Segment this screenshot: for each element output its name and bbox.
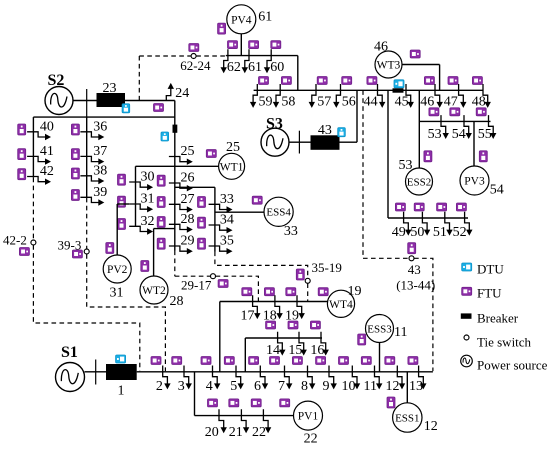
FTU at ESS1	[387, 397, 395, 408]
load arrow node 41	[27, 156, 51, 164]
wire feeder 40-42	[32, 117, 34, 178]
wire bus 60-62 down to main bus	[297, 56, 299, 91]
load arrow node 59	[250, 84, 257, 108]
wind turbine WT4	[327, 290, 354, 317]
load arrow node 20	[219, 409, 227, 433]
wire ESS3 to bus	[379, 343, 381, 372]
svg-text:42-2: 42-2	[3, 233, 27, 248]
wire feeder 36-39	[86, 117, 88, 198]
FTU at node 4	[201, 357, 211, 365]
FTU at node 46	[424, 77, 434, 85]
breaker 1	[106, 364, 137, 380]
load arrow node 54	[464, 115, 472, 139]
svg-text:52: 52	[453, 225, 467, 240]
wire S3 to breaker 43	[289, 141, 311, 143]
load arrow node 51	[445, 212, 453, 236]
svg-text:31: 31	[141, 192, 155, 207]
svg-text:8: 8	[301, 379, 308, 394]
svg-text:11: 11	[394, 325, 407, 340]
load arrow node 28	[169, 224, 193, 232]
bus 20-22	[195, 415, 294, 417]
load arrow node 39	[80, 197, 104, 205]
svg-text:40: 40	[40, 119, 54, 134]
wire node 25 to WT1	[175, 165, 218, 167]
FTU at node 47	[448, 77, 458, 85]
bus 17-19	[220, 301, 328, 303]
wire S3 riser to main bus	[356, 90, 358, 142]
FTU at node 17	[242, 288, 252, 296]
FTU at WT2	[141, 261, 149, 272]
FTU at node 3	[172, 357, 182, 365]
svg-text:WT4: WT4	[329, 299, 353, 311]
FTU at node 29	[157, 238, 165, 249]
svg-text:50: 50	[410, 225, 424, 240]
power source S2	[45, 87, 73, 115]
wire node 33 to ESS4	[215, 211, 264, 213]
svg-text:13: 13	[409, 379, 423, 394]
wire branch to 33-35 column	[175, 186, 215, 188]
wire PV3 riser	[473, 121, 475, 166]
DTU at node 45	[394, 80, 404, 88]
tie line 13-44 horizontal	[363, 257, 409, 259]
wire WT3 to corner	[402, 64, 440, 66]
tie switch 42-2	[31, 240, 36, 245]
FTU at node 56	[342, 77, 352, 85]
svg-text:45: 45	[395, 95, 409, 110]
svg-text:62-24: 62-24	[180, 58, 211, 73]
load arrow node 40	[27, 132, 51, 140]
svg-text:FTU: FTU	[477, 286, 502, 301]
FTU at node 48	[472, 77, 482, 85]
FTU at node 22	[251, 399, 261, 407]
svg-text:(13-44): (13-44)	[396, 278, 435, 293]
FTU at node 41	[18, 149, 26, 160]
wire S1 busbar tick	[95, 360, 97, 385]
tie line 42-2 upper	[32, 178, 34, 240]
wire WT2 riser	[153, 229, 155, 276]
FTU at node 55	[476, 108, 486, 116]
wire column 33-35	[214, 187, 216, 251]
main bottom bus	[137, 371, 433, 373]
tie line 42-2 lower	[33, 245, 139, 371]
svg-text:51: 51	[433, 225, 447, 240]
load arrow node 12	[397, 366, 405, 390]
FTU at node 39	[71, 190, 79, 201]
DTU at breaker 23	[122, 104, 130, 113]
load arrow node 61	[242, 49, 249, 73]
svg-text:1: 1	[118, 384, 125, 399]
svg-text:54: 54	[452, 127, 466, 142]
svg-text:19: 19	[348, 284, 362, 299]
svg-text:36: 36	[93, 119, 107, 134]
load arrow node 17	[253, 295, 261, 319]
FTU at node 53	[429, 108, 439, 116]
wind turbine WT2	[140, 276, 168, 304]
svg-text:S1: S1	[61, 344, 78, 361]
svg-text:34: 34	[220, 213, 234, 228]
FTU at node 61	[249, 41, 259, 49]
svg-text:41: 41	[40, 144, 54, 159]
load arrow node 16	[321, 332, 329, 356]
svg-text:33: 33	[220, 192, 234, 207]
FTU at node 8	[292, 357, 302, 365]
svg-text:53: 53	[428, 127, 442, 142]
load arrow node 60	[264, 49, 271, 73]
svg-text:15: 15	[288, 343, 302, 358]
svg-text:10: 10	[342, 379, 356, 394]
FTU at PV3	[479, 151, 487, 162]
svg-text:35-19: 35-19	[312, 260, 342, 275]
load arrow node 44	[378, 84, 386, 108]
load arrow node 22	[263, 409, 271, 433]
FTU at node 38	[71, 168, 79, 179]
svg-text:3: 3	[178, 379, 185, 394]
FTU at node 26	[157, 175, 165, 186]
svg-text:WT2: WT2	[142, 285, 166, 297]
FTU at tie 13-44	[408, 243, 416, 254]
FTU at node 44	[367, 77, 377, 85]
load arrow node 2	[163, 366, 171, 390]
bus 53-55	[419, 120, 490, 122]
wire branch to 30-32 column	[136, 165, 176, 167]
svg-text:26: 26	[181, 171, 195, 186]
svg-text:Power source: Power source	[477, 358, 548, 373]
svg-text:56: 56	[342, 95, 356, 110]
FTU at PV1 branch	[280, 399, 290, 407]
svg-text:WT1: WT1	[220, 161, 244, 173]
FTU at node 15	[288, 321, 298, 329]
FTU at node 16	[310, 321, 320, 329]
load arrow node 21	[241, 409, 249, 433]
load arrow node 24	[166, 83, 174, 101]
FTU at ESS3	[358, 334, 366, 345]
energy storage ESS2	[406, 168, 433, 195]
svg-text:PV4: PV4	[231, 14, 252, 26]
FTU at node 50	[414, 203, 424, 211]
load arrow node 36	[80, 132, 104, 140]
legend power source icon	[461, 355, 473, 367]
load arrow node 11	[375, 366, 383, 390]
load arrow node 26	[169, 183, 193, 191]
svg-text:57: 57	[317, 95, 331, 110]
load arrow node 56	[333, 84, 340, 108]
wire column 30-32	[135, 166, 137, 226]
FTU at node 14	[266, 321, 276, 329]
tie line 29-17 horizontal left	[175, 275, 211, 277]
svg-text:33: 33	[284, 224, 298, 239]
tie line 62-24 vertical	[138, 56, 140, 101]
wire riser to bus 17-19	[219, 302, 221, 372]
power source S3	[261, 128, 289, 156]
FTU at node 59	[259, 77, 269, 85]
wire riser to bus 14-16	[244, 338, 246, 372]
svg-text:43: 43	[318, 123, 332, 138]
FTU at tie 62-24	[189, 44, 199, 52]
svg-text:Breaker: Breaker	[477, 311, 519, 326]
FTU at node 57	[317, 77, 327, 85]
tie line 39-3 lower	[87, 254, 166, 371]
load arrow node 27	[169, 204, 193, 212]
svg-text:38: 38	[93, 163, 107, 178]
load arrow node 19	[297, 295, 305, 319]
load arrow node 33	[209, 204, 233, 212]
load arrow node 47	[459, 84, 467, 108]
load arrow node 35	[209, 246, 233, 254]
FTU at WT3 branch	[410, 50, 420, 58]
FTU at node 18	[264, 288, 274, 296]
svg-text:37: 37	[93, 144, 107, 159]
breaker 23	[97, 93, 126, 107]
load arrow node 45	[406, 84, 414, 108]
svg-text:2: 2	[156, 379, 163, 394]
bus 49-52	[388, 217, 468, 219]
load arrow node 62	[221, 49, 228, 73]
wire left feeder header	[33, 116, 174, 118]
wind turbine WT1	[219, 153, 245, 179]
power source S1	[56, 363, 85, 392]
load arrow node 30	[129, 182, 153, 190]
photovoltaic PV3	[460, 166, 489, 195]
load arrow node 14	[278, 332, 286, 356]
bus 14-16	[245, 337, 322, 339]
wire S2 to breaker 23	[73, 100, 97, 102]
svg-text:24: 24	[175, 86, 189, 101]
FTU at node 21	[229, 399, 239, 407]
wind turbine WT3	[375, 51, 402, 78]
svg-text:29: 29	[181, 234, 195, 249]
svg-text:ESS3: ESS3	[367, 323, 392, 335]
svg-text:ESS1: ESS1	[395, 412, 419, 424]
load arrow node 32	[129, 226, 153, 234]
load arrow node 55	[489, 115, 497, 139]
FTU at WT1 branch	[206, 150, 216, 158]
svg-text:39: 39	[93, 185, 107, 200]
svg-text:35: 35	[220, 234, 234, 249]
svg-text:59: 59	[259, 95, 273, 110]
wire node 53 riser	[418, 90, 420, 168]
FTU at node 62	[228, 41, 238, 49]
svg-text:WT3: WT3	[377, 60, 401, 72]
energy storage ESS3	[366, 315, 394, 343]
load arrow node 29	[169, 246, 193, 254]
main bus 59-44-48	[254, 89, 484, 91]
FTU at tie 29-17	[218, 280, 228, 288]
svg-text:DTU: DTU	[477, 262, 504, 277]
FTU at node 7	[270, 357, 280, 365]
wire riser to bus 20-22	[194, 372, 196, 416]
svg-text:4: 4	[206, 379, 213, 394]
load arrow node 42	[27, 177, 51, 185]
FTU at node 49	[395, 203, 405, 211]
svg-text:58: 58	[281, 95, 295, 110]
load arrow node 34	[209, 225, 233, 233]
FTU at tie 42-2	[19, 248, 29, 256]
load arrow node 18	[275, 295, 283, 319]
FTU at tie 39-3	[72, 250, 82, 258]
FTU at PV4	[218, 23, 226, 34]
load arrow node 50	[422, 212, 430, 236]
FTU at node 27	[157, 197, 165, 208]
FTU at node 30	[118, 174, 126, 185]
FTU at node 9	[316, 357, 326, 365]
tie line 35-19 from node 35	[215, 252, 308, 279]
energy storage ESS4	[264, 197, 293, 226]
tie line 13-44 vertical from bus 44	[362, 90, 364, 258]
bus 60-62	[226, 55, 298, 57]
svg-text:6: 6	[254, 379, 261, 394]
svg-text:22: 22	[252, 425, 266, 440]
load arrow node 4	[213, 366, 221, 390]
svg-text:32: 32	[141, 214, 155, 229]
svg-text:ESS4: ESS4	[266, 207, 291, 219]
photovoltaic PV4	[227, 5, 256, 34]
load arrow node 49	[404, 212, 412, 236]
svg-text:44: 44	[364, 95, 378, 110]
svg-text:5: 5	[230, 379, 237, 394]
svg-text:27: 27	[181, 192, 195, 207]
load arrow node 25	[169, 157, 193, 165]
FTU at node 11	[361, 357, 371, 365]
FTU at node 40	[18, 124, 26, 135]
wire breaker 23 to corner 24	[125, 100, 175, 102]
svg-text:60: 60	[270, 60, 284, 75]
wire feeder-2 riser / busbar tick	[86, 89, 88, 117]
FTU at node 33	[198, 197, 206, 208]
tie line 29-17 to bus 17	[216, 276, 259, 301]
load arrow node 9	[329, 366, 337, 390]
tie line 39-3 upper	[86, 198, 88, 249]
energy storage ESS1	[393, 403, 422, 432]
FTU at node 12	[385, 357, 395, 365]
svg-text:61: 61	[248, 60, 262, 75]
FTU at node 34	[198, 217, 206, 228]
load arrow node 3	[184, 366, 192, 390]
svg-text:62: 62	[227, 60, 241, 75]
FTU at node 24	[154, 104, 164, 112]
breaker on feeder 25-29	[173, 125, 178, 133]
wire S1 to breaker 1	[85, 371, 107, 373]
load arrow node 10	[352, 366, 360, 390]
load arrow node 46	[435, 84, 443, 108]
tie line 29-17 from node 29	[174, 251, 176, 277]
legend DTU icon	[462, 263, 472, 271]
load arrow node 37	[80, 156, 104, 164]
photovoltaic PV2	[103, 255, 131, 283]
load arrow node 52	[465, 212, 473, 236]
FTU at node 35	[198, 238, 206, 249]
photovoltaic PV1	[294, 401, 323, 430]
load arrow node 31	[129, 204, 153, 212]
svg-text:PV3: PV3	[464, 176, 485, 188]
wire WT2 branch horizontal	[154, 228, 176, 230]
FTU at node 42	[18, 169, 26, 180]
svg-text:17: 17	[241, 309, 255, 324]
wire S3 busbar tick	[298, 131, 300, 154]
svg-text:9: 9	[323, 379, 330, 394]
svg-text:61: 61	[258, 10, 272, 25]
breaker 43	[311, 135, 340, 150]
FTU at ESS2	[424, 151, 432, 162]
load arrow node 57	[309, 84, 316, 108]
svg-text:14: 14	[266, 343, 280, 358]
svg-text:Tie switch: Tie switch	[477, 335, 532, 350]
load arrow node 5	[236, 366, 244, 390]
svg-text:25: 25	[181, 144, 195, 159]
tie switch 35-19	[305, 278, 310, 283]
svg-text:ESS2: ESS2	[407, 176, 431, 188]
FTU at node 2	[151, 357, 161, 365]
FTU at ESS4 branch	[252, 196, 262, 204]
tie line 13-44 to bus 13	[414, 258, 433, 371]
FTU at node 60	[271, 41, 281, 49]
wire main feeder 25-29	[174, 101, 176, 251]
svg-text:54: 54	[490, 183, 504, 198]
svg-text:12: 12	[386, 379, 400, 394]
FTU at node 13	[408, 357, 418, 365]
FTU at node 37	[71, 149, 79, 160]
tie line 62-24 to bus 62	[196, 55, 226, 57]
svg-text:49: 49	[392, 225, 406, 240]
svg-text:PV2: PV2	[107, 264, 128, 276]
tie switch 62-24	[191, 54, 196, 59]
legend FTU icon	[462, 287, 472, 295]
svg-text:20: 20	[205, 425, 219, 440]
FTU at node 54	[450, 108, 460, 116]
load arrow node 7	[285, 366, 293, 390]
FTU at node 10	[339, 357, 349, 365]
load arrow node 38	[80, 176, 104, 184]
tie line 62-24 horizontal	[139, 55, 191, 57]
FTU at node 51	[437, 203, 447, 211]
DTU at breaker 43	[338, 128, 346, 137]
breaker at node 45	[393, 88, 404, 92]
svg-text:12: 12	[424, 419, 438, 434]
svg-text:16: 16	[310, 343, 324, 358]
svg-text:7: 7	[278, 379, 285, 394]
wire breaker 43 to riser	[340, 141, 358, 143]
FTU at node 6	[249, 357, 259, 365]
DTU at breaker 1	[116, 355, 126, 363]
load arrow node 8	[308, 366, 316, 390]
FTU at node 52	[456, 203, 466, 211]
svg-text:25: 25	[226, 140, 240, 155]
legend tie switch icon	[464, 335, 469, 340]
FTU at node 5	[224, 357, 234, 365]
svg-text:11: 11	[364, 379, 377, 394]
svg-text:55: 55	[478, 127, 492, 142]
FTU at node 28	[157, 217, 165, 228]
svg-text:43: 43	[408, 262, 421, 277]
wire WT3 riser to main bus	[439, 65, 441, 91]
svg-text:42: 42	[40, 164, 54, 179]
svg-text:30: 30	[141, 170, 155, 185]
load arrow node 6	[260, 366, 268, 390]
load arrow node 53	[441, 115, 449, 139]
svg-text:28: 28	[170, 294, 184, 309]
tie switch 29-17	[211, 274, 216, 279]
wire node 31 stub to PV2	[117, 203, 129, 205]
DTU at feeder breaker	[161, 132, 169, 141]
load arrow node 58	[273, 84, 280, 108]
FTU at node 31	[118, 196, 126, 207]
svg-text:31: 31	[110, 286, 124, 301]
FTU at node 32	[118, 219, 126, 230]
FTU at PV2	[106, 243, 114, 254]
load arrow node 13	[419, 366, 427, 390]
FTU at node 36	[71, 124, 79, 135]
FTU at tie 35-19	[296, 269, 304, 280]
FTU at node 58	[281, 77, 291, 85]
